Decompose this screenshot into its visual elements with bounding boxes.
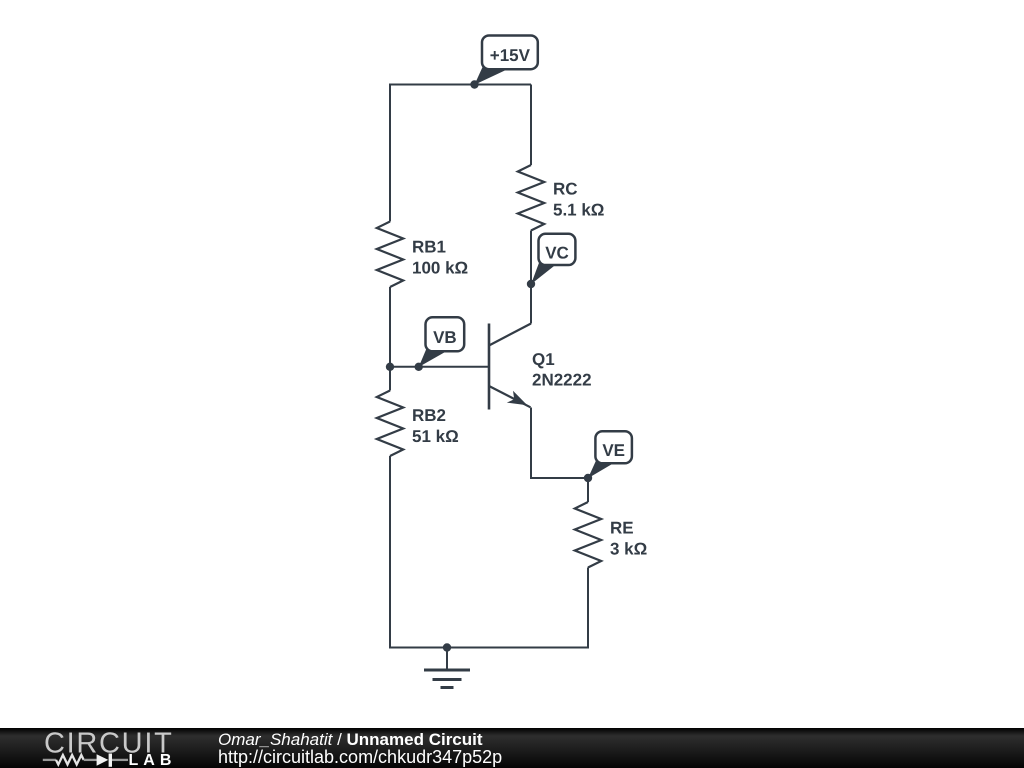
svg-text:51 kΩ: 51 kΩ — [412, 427, 459, 446]
wire left column bottom, bottom rail and rise to RE — [390, 456, 588, 648]
svg-text:3 kΩ: 3 kΩ — [610, 540, 647, 559]
label RB1 100 kOhm — [412, 238, 468, 278]
svg-text:RB2: RB2 — [412, 406, 446, 425]
resistor RC — [518, 165, 544, 231]
svg-text:RC: RC — [553, 180, 578, 199]
flag +15V — [475, 36, 538, 85]
resistor RE — [575, 502, 601, 568]
svg-text:VB: VB — [433, 328, 457, 347]
wire left column between RB1 and RB2 — [389, 287, 391, 391]
node VE attach — [584, 474, 592, 482]
transistor Q1 2N2222 — [489, 324, 531, 410]
svg-text:RB1: RB1 — [412, 238, 446, 257]
node VC attach — [527, 280, 535, 288]
svg-text:VC: VC — [545, 243, 569, 262]
resistor RB2 — [377, 391, 403, 457]
node at +15V rail — [470, 80, 478, 88]
wire top rail from left column to right column with +15V node — [390, 85, 531, 222]
svg-text:+15V: +15V — [490, 46, 531, 65]
flag VC — [531, 234, 575, 284]
svg-text:LAB: LAB — [129, 752, 177, 768]
svg-text:RE: RE — [610, 519, 634, 538]
resistor RB1 — [377, 222, 403, 288]
svg-text:2N2222: 2N2222 — [532, 371, 592, 390]
footer credit text — [218, 731, 483, 748]
node at base junction — [386, 363, 394, 371]
svg-text:100 kΩ: 100 kΩ — [412, 259, 468, 278]
footer bar — [0, 728, 1024, 768]
wire emitter of Q1 to RE with VE node — [531, 408, 588, 503]
wire base of Q1 — [390, 366, 489, 368]
wire right column top to RC — [530, 85, 532, 166]
svg-text:5.1 kΩ: 5.1 kΩ — [553, 201, 604, 220]
CircuitLab logo — [0, 728, 210, 768]
svg-text:Q1: Q1 — [532, 350, 555, 369]
svg-text:VE: VE — [602, 441, 625, 460]
label RB2 51 kOhm — [412, 406, 459, 446]
node ground — [443, 643, 451, 651]
flag VE — [588, 431, 632, 478]
label RE 3 kOhm — [610, 519, 647, 559]
node VB attach — [415, 363, 423, 371]
flag VB — [419, 317, 465, 367]
label Q1 2N2222 — [532, 350, 592, 390]
ground — [424, 648, 470, 688]
wire RC to collector of Q1 — [530, 231, 532, 324]
label RC 5.1 kOhm — [553, 180, 604, 220]
